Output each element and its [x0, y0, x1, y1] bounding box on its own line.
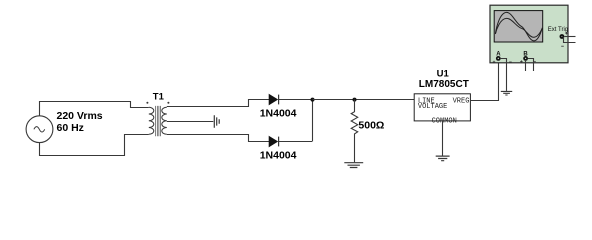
svg-text:VREG: VREG [453, 98, 470, 106]
scope trace B (small) [495, 18, 542, 37]
pin label LINE VOLTAGE [418, 98, 447, 112]
wire top: source to transformer primary [40, 102, 149, 116]
resistor R1 500 ohm [351, 100, 358, 163]
wire U1 common down [442, 121, 444, 156]
svg-text:1N4004: 1N4004 [260, 150, 297, 162]
scope trace A (large) [495, 12, 542, 40]
svg-text:220 Vrms: 220 Vrms [57, 110, 103, 122]
channel B plus minus marks [520, 60, 536, 63]
svg-text:Ext Trig: Ext Trig [548, 27, 568, 33]
core lines [156, 106, 161, 136]
primary coil [149, 107, 154, 134]
Ext Trig terminal [560, 34, 565, 39]
svg-text:500Ω: 500Ω [358, 119, 384, 131]
ext trig plus minus marks [561, 32, 568, 46]
transformer T1 [149, 106, 167, 136]
svg-text:60 Hz: 60 Hz [57, 122, 84, 134]
diode D2 1N4004 [269, 136, 312, 147]
svg-text:LM7805CT: LM7805CT [419, 79, 469, 90]
channel B terminal [523, 56, 528, 61]
polarity dot secondary [167, 102, 169, 104]
AC source V1 [26, 116, 53, 143]
wire top rail to U1 input [313, 99, 415, 101]
wire scope B minus stub [528, 59, 534, 72]
diode D1 1N4004 [269, 94, 312, 105]
wire ext trig minus stub [564, 37, 576, 43]
wire U1 output to scope channel A [471, 60, 499, 100]
ground (U1 common) [436, 156, 450, 161]
secondary coil [162, 107, 167, 134]
voltage regulator U1 LM7805CT box [414, 94, 470, 121]
ground (scope A minus) [501, 91, 512, 95]
oscilloscope XSC1 panel [490, 5, 568, 63]
polarity dot primary [146, 102, 148, 104]
wire scope A minus to ground [501, 59, 507, 91]
svg-text:VOLTAGE: VOLTAGE [418, 103, 447, 111]
svg-text:COMMON: COMMON [432, 117, 457, 125]
oscilloscope screen [494, 11, 543, 42]
wire D2 output riser to top rail [312, 100, 314, 142]
wire ext trig plus stub [564, 36, 575, 38]
wire scope B plus stub [525, 61, 527, 71]
wire secondary top tap to diode D1 row [167, 100, 269, 107]
wire secondary bottom tap to diode D2 row [167, 135, 269, 142]
channel A plus minus marks [493, 61, 512, 64]
junction dot resistor [353, 98, 357, 102]
ground (center tap, rotated) [214, 115, 219, 128]
junction dot diodes [311, 98, 315, 102]
ground (R1) [344, 163, 363, 168]
wire bottom: source to transformer primary [40, 135, 149, 156]
svg-text:T1: T1 [153, 91, 165, 102]
svg-text:U1: U1 [437, 68, 450, 79]
wire secondary center tap [167, 121, 214, 123]
svg-text:1N4004: 1N4004 [260, 108, 297, 120]
label 220 Vrms / 60 Hz [57, 110, 103, 134]
channel A terminal [496, 56, 501, 61]
